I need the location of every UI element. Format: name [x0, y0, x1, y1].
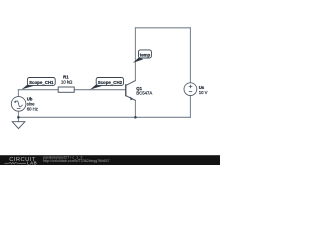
svg-text:10 kΩ: 10 kΩ	[61, 79, 73, 84]
svg-text:BC547A: BC547A	[136, 91, 152, 96]
footer bar	[0, 155, 220, 165]
flag Scope_CH1	[22, 78, 56, 90]
wire right vertical lower	[189, 96, 191, 118]
wire right vertical upper	[189, 28, 191, 83]
flag Scope_CH2	[90, 78, 124, 90]
svg-text:Scope_CH1: Scope_CH1	[29, 80, 54, 85]
wire collector vertical	[134, 28, 136, 81]
wire emitter vertical	[134, 100, 136, 117]
voltage source Us (DC)	[184, 83, 197, 96]
wire source-top vertical	[17, 90, 19, 97]
ground	[12, 122, 25, 129]
wires	[18, 28, 190, 122]
wire source bottom to ground	[17, 111, 19, 122]
svg-text:60 Hz: 60 Hz	[27, 106, 38, 111]
node junction dot emitter	[134, 116, 137, 119]
resistor R1	[58, 87, 74, 92]
wire resistor to transistor base	[74, 89, 125, 91]
svg-text:10 V: 10 V	[199, 90, 208, 95]
svg-text:LAB: LAB	[27, 160, 37, 165]
svg-text:temp: temp	[140, 52, 151, 57]
svg-text:http://circuitlab.com/c/72362d: http://circuitlab.com/c/72362deqg76h657	[43, 159, 109, 163]
flag temp	[133, 50, 152, 63]
node junction dot left	[17, 116, 20, 119]
wire top horizontal	[135, 27, 190, 29]
transistor Q1	[126, 81, 136, 101]
svg-text:Scope_CH2: Scope_CH2	[98, 80, 123, 85]
logo resistor line	[5, 162, 27, 164]
wire main horizontal left segment	[18, 89, 58, 91]
voltage source Ub (sine)	[11, 97, 26, 112]
wire bottom horizontal	[18, 116, 190, 118]
